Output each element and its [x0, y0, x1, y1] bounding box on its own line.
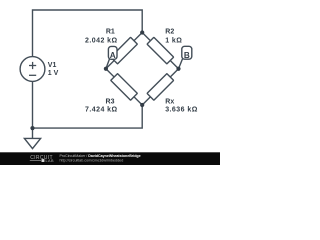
svg-text:http://circuitlab.com/cme3dw/l: http://circuitlab.com/cme3dw/lmbedded — [60, 159, 124, 163]
watermark bar — [0, 152, 220, 165]
svg-text:R2: R2 — [165, 29, 174, 36]
voltage source V1 — [20, 57, 45, 82]
wire ground stem — [32, 128, 34, 138]
junction node B — [176, 67, 180, 71]
svg-text:Rx: Rx — [165, 99, 174, 106]
junction top node — [140, 30, 144, 34]
svg-text:1 V: 1 V — [48, 70, 59, 77]
wire arm R2 — [142, 33, 178, 69]
svg-text:V1: V1 — [48, 62, 57, 69]
resistor Rx — [147, 74, 174, 101]
svg-text:R3: R3 — [106, 99, 115, 106]
resistor R2 — [147, 37, 174, 64]
junction bottom node — [140, 103, 144, 107]
wire bottom node to ground junction — [33, 105, 143, 128]
watermark logo CIRCUIT LAB — [30, 155, 54, 163]
wire V1 bottom to ground junction — [32, 81, 34, 128]
wire V1 top to top node — [33, 10, 143, 57]
svg-text:LAB: LAB — [46, 159, 55, 163]
resistor R1 — [111, 37, 138, 64]
svg-text:A: A — [110, 51, 116, 60]
svg-text:7.424 kΩ: 7.424 kΩ — [85, 107, 118, 114]
wire arm R1 — [106, 33, 142, 69]
svg-text:2.042 kΩ: 2.042 kΩ — [85, 38, 118, 45]
ground — [24, 138, 40, 148]
wire arm Rx — [142, 69, 178, 105]
svg-text:R1: R1 — [106, 29, 115, 36]
junction node A — [104, 67, 108, 71]
wire stub node A — [106, 59, 110, 69]
svg-text:ProCircuitMaker / DavidCayneWh: ProCircuitMaker / DavidCayneWheatstoneBr… — [60, 154, 141, 158]
wire stub node B — [179, 59, 183, 69]
svg-text:3.636 kΩ: 3.636 kΩ — [165, 107, 198, 114]
node B — [182, 46, 192, 59]
junction ground — [30, 126, 34, 130]
resistor R3 — [111, 74, 138, 101]
node A — [108, 46, 117, 59]
watermark text — [60, 154, 141, 162]
svg-text:B: B — [184, 51, 190, 60]
wire arm R3 — [106, 69, 142, 105]
svg-text:1 kΩ: 1 kΩ — [165, 38, 182, 45]
